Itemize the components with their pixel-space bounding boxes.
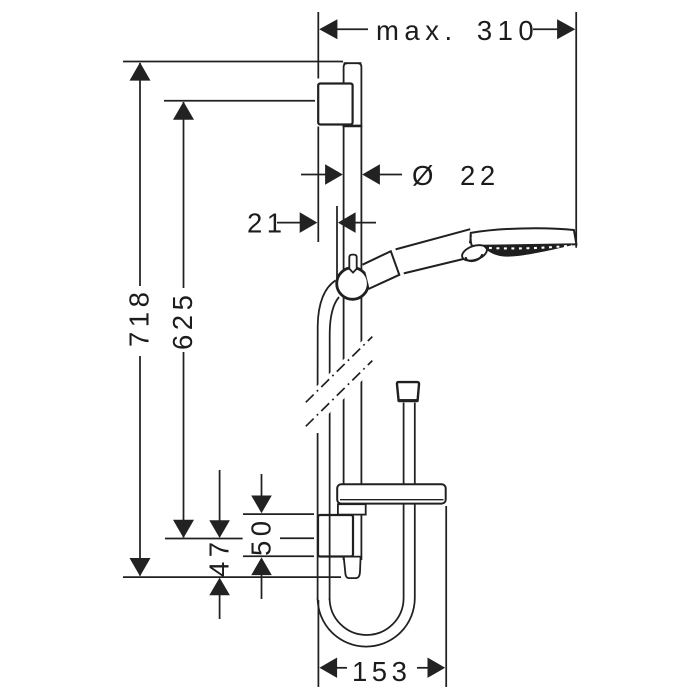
break mark diagonal 2 — [306, 361, 373, 427]
svg-text:625: 625 — [167, 291, 198, 350]
dim 153: left arrow — [319, 658, 347, 678]
dim max310: right extension line — [575, 12, 577, 248]
dim 50: bottom extension line — [243, 555, 314, 557]
bottom wall bracket — [318, 515, 353, 557]
svg-text:153: 153 — [352, 656, 411, 687]
dim 50: upper arrow — [251, 474, 272, 513]
dim 718: dimension line — [130, 62, 151, 576]
soap dish mount — [338, 504, 366, 514]
kink tick on head left — [470, 235, 472, 243]
dim 625: dimension line — [173, 102, 194, 538]
hose from slider down (left run) — [318, 281, 339, 601]
hose right hanging run — [404, 403, 415, 598]
svg-text:21: 21 — [247, 208, 287, 239]
svg-text:47: 47 — [204, 537, 235, 577]
break mark eraser band — [303, 329, 375, 440]
svg-text:50: 50 — [246, 516, 277, 556]
rail bottom end cap — [344, 557, 361, 579]
dim 153: right extension line — [445, 506, 447, 687]
hose conical nut — [397, 382, 419, 401]
pivot oval on shower underside — [460, 242, 489, 263]
dim dia22: left arrow — [301, 164, 343, 185]
hand shower head body — [471, 228, 577, 246]
hand shower handle — [396, 229, 475, 273]
dim 625: bottom extension line — [165, 538, 243, 540]
oval inner crescent — [466, 254, 482, 261]
slider knob — [337, 268, 369, 300]
dim 21: left arrow — [277, 212, 317, 233]
dim 21: extension line short — [336, 206, 338, 280]
break mark diagonal 1 — [306, 337, 373, 403]
dim 21: right arrow — [338, 212, 376, 233]
dim 47: upper arrow — [209, 470, 230, 538]
dim 50: top extension line — [243, 513, 314, 515]
hose U-loop at bottom — [318, 598, 415, 647]
dim dia22: right arrow — [362, 164, 402, 185]
slider clamp tab — [349, 255, 356, 273]
shower rail vertical bar — [344, 63, 362, 560]
svg-text:718: 718 — [124, 288, 155, 347]
dim max310: right arrow — [533, 19, 575, 39]
wall extension line below bracket — [317, 127, 319, 243]
dim max310: left extension line — [317, 12, 319, 79]
dim 50: lower arrow — [251, 557, 272, 599]
hand shower cone connector — [364, 251, 400, 288]
svg-text:max. 310: max. 310 — [376, 15, 539, 46]
soap dish — [337, 484, 446, 503]
bracket centre stub line — [280, 537, 314, 539]
dim 153: right arrow — [417, 658, 445, 678]
spray nozzles (white dots) — [489, 246, 572, 249]
dim max310: left arrow — [319, 19, 368, 39]
dim 153: left extension line — [317, 600, 319, 687]
svg-text:Ø 22: Ø 22 — [412, 160, 500, 191]
dim 625: top extension line — [164, 100, 315, 102]
dim 718: bottom extension line — [123, 576, 341, 578]
spray face dark band — [483, 244, 576, 256]
dim 718: top extension line — [123, 61, 343, 63]
dim 47: lower arrow — [209, 578, 230, 619]
top wall bracket — [318, 84, 362, 126]
